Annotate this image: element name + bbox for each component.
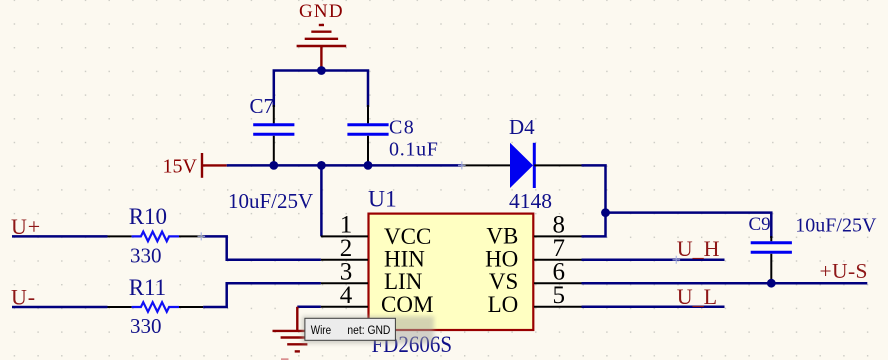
resistor R11 <box>108 302 204 312</box>
wire VS to +U-S <box>582 282 868 285</box>
pin 8 lead <box>534 235 582 237</box>
svg-text:HO: HO <box>485 247 518 272</box>
pin 7 lead <box>534 259 582 261</box>
svg-text:VCC: VCC <box>384 224 431 249</box>
wire diode to VB / down to pin 8 <box>582 165 606 236</box>
pin 5 lead <box>534 306 582 308</box>
pin 1 lead <box>321 235 368 237</box>
wire top cap bus <box>274 71 368 108</box>
pin 4 lead <box>321 306 368 308</box>
svg-text:C9: C9 <box>749 214 771 235</box>
pin 6 lead <box>534 282 582 284</box>
wire LO to U_L <box>582 306 725 309</box>
svg-text:U_L: U_L <box>677 284 717 309</box>
svg-text:0.1uF: 0.1uF <box>389 138 439 160</box>
svg-text:U-: U- <box>11 284 36 309</box>
svg-text:10uF/25V: 10uF/25V <box>228 189 313 213</box>
capacitor C8 <box>347 105 388 165</box>
svg-text:330: 330 <box>130 314 162 338</box>
tooltip box "Wire net: GND" <box>305 318 396 340</box>
svg-text:330: 330 <box>130 244 162 268</box>
svg-text:HIN: HIN <box>384 247 425 272</box>
svg-text:U1: U1 <box>368 186 397 212</box>
wire end marker (U_H label) <box>673 256 681 264</box>
wire U- to R11 <box>12 306 108 309</box>
junction C9 / +U-S <box>767 279 776 288</box>
wire HO to U_H <box>582 259 725 262</box>
pin 2 lead <box>321 259 368 261</box>
wire R10 to pin 2 <box>203 236 321 259</box>
junction VB branch <box>601 208 610 217</box>
wire pin 4 to ground <box>297 306 321 309</box>
pin 3 lead <box>321 282 368 284</box>
wire U+ to R10 <box>12 235 108 238</box>
svg-text:GND: GND <box>299 1 344 22</box>
junction C8/rail <box>364 161 373 170</box>
power port 15V <box>163 153 227 178</box>
power port GND (top) label <box>299 1 344 22</box>
wire 15V rail <box>227 164 463 167</box>
svg-text:15V: 15V <box>163 156 198 178</box>
svg-text:U_H: U_H <box>677 236 720 261</box>
svg-text:COM: COM <box>381 292 433 317</box>
svg-text:VB: VB <box>486 224 518 249</box>
svg-text:C7: C7 <box>250 94 275 118</box>
junction top GND stem <box>317 66 326 75</box>
ground symbol (bottom power gnd) <box>273 307 323 352</box>
resistor R10 <box>108 232 204 242</box>
svg-text:U+: U+ <box>11 214 41 239</box>
svg-text:R11: R11 <box>129 275 167 300</box>
svg-text:+U-S: +U-S <box>820 259 868 283</box>
svg-text:net: GND: net: GND <box>347 325 390 337</box>
cut-off symbol at bottom edge <box>281 358 289 360</box>
svg-text:VS: VS <box>489 269 518 294</box>
svg-text:Wire: Wire <box>311 325 331 337</box>
svg-text:4: 4 <box>340 282 353 309</box>
ground symbol (top, earth bars) <box>297 25 347 71</box>
svg-text:R10: R10 <box>129 204 167 229</box>
svg-text:C8: C8 <box>389 117 415 139</box>
wire R11 to pin 3 <box>203 283 321 307</box>
svg-text:LO: LO <box>488 292 519 317</box>
svg-text:4148: 4148 <box>509 189 552 213</box>
wire drop to pin 1 <box>320 165 323 236</box>
svg-text:5: 5 <box>552 282 565 309</box>
IC U1 body <box>369 214 534 330</box>
svg-text:10uF/25V: 10uF/25V <box>795 214 877 236</box>
junction C7/rail <box>269 161 278 170</box>
wire end marker (R10 lead) <box>198 232 206 240</box>
wire end marker (diode anode) <box>458 161 466 169</box>
junction pin1 drop/rail <box>317 161 326 170</box>
svg-text:D4: D4 <box>509 115 535 139</box>
svg-text:LIN: LIN <box>384 269 423 294</box>
capacitor C9 <box>751 236 792 284</box>
diode D4 <box>463 143 582 188</box>
capacitor C7 <box>253 105 294 165</box>
tooltip shadow <box>302 316 434 344</box>
wire branch to C9 <box>606 213 772 238</box>
